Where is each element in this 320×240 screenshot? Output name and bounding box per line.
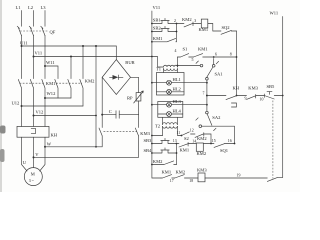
svg-text:V11: V11 (35, 51, 43, 56)
svg-text:HL3: HL3 (173, 99, 182, 104)
svg-text:V: V (35, 152, 39, 157)
svg-text:M: M (31, 171, 35, 176)
wire KM2 pole2 feed (70, 56, 72, 58)
svg-text:11: 11 (177, 131, 181, 135)
svg-text:KM1: KM1 (162, 169, 172, 174)
wire V11 bus (34, 56, 152, 58)
wire W tap to KM3 (45, 136, 102, 147)
node C left junction (101, 114, 103, 116)
coil KM3 (198, 173, 205, 182)
svg-text:15: 15 (212, 139, 216, 143)
svg-text:16: 16 (228, 139, 232, 143)
node U12 cross link (21, 105, 23, 107)
svg-text:T1: T1 (156, 67, 161, 72)
wire bridge right vertex to RP (131, 77, 139, 92)
breaker QF linkage (20, 30, 48, 32)
wire KM2 pole3 feed (82, 45, 84, 47)
wire rail to node 11 (152, 135, 163, 137)
svg-text:HL1: HL1 (173, 77, 181, 82)
svg-text:KM1: KM1 (46, 81, 56, 86)
svg-text:9: 9 (245, 97, 247, 101)
wire lamp box 2 to SA column (183, 104, 207, 106)
svg-text:3 ~: 3 ~ (29, 179, 34, 183)
lamp HL4 (158, 113, 183, 115)
svg-text:KM3: KM3 (197, 168, 207, 173)
wire coil KM2 to node 15 (203, 143, 214, 145)
lamp box HL3 HL4 (158, 102, 183, 118)
node W12 cross link (44, 97, 46, 99)
wire L2 drop (33, 11, 35, 27)
svg-text:3: 3 (194, 19, 196, 23)
row KH: wire from node 7 (206, 95, 208, 97)
svg-text:SB5: SB5 (267, 84, 276, 89)
wire phase W drop (44, 36, 46, 79)
wire bridge left vertex down (101, 77, 103, 127)
node motor V tap (33, 156, 35, 158)
thermal relay KH heater hook (31, 129, 35, 134)
wire motor lead W (40, 137, 45, 171)
svg-text:C: C (109, 109, 112, 114)
svg-text:19: 19 (237, 173, 241, 177)
contactor KM1 pole 2 (30, 79, 33, 126)
wire U11 bus (22, 45, 117, 47)
svg-text:L3: L3 (41, 5, 47, 10)
wire L1 drop (21, 11, 23, 27)
wire motor lead U (22, 137, 28, 171)
svg-text:2: 2 (174, 19, 176, 23)
contact KM2 NC (row S2) (191, 133, 212, 144)
node V12 cross link (33, 115, 35, 117)
svg-text:KM1: KM1 (153, 36, 163, 41)
wire RP to C row (138, 101, 140, 115)
svg-text:KM2: KM2 (182, 17, 192, 22)
scan artifact left edge (0, 0, 2, 192)
contact KM1 NC (row KM2 coil) (177, 142, 197, 147)
contactor KM1 pole 1 (18, 79, 21, 126)
lamp HL3 (158, 104, 183, 106)
contactor KM2 pole 1 (55, 79, 58, 98)
wire phase V drop (33, 36, 35, 79)
contactor KM3 pole 1 (99, 128, 102, 136)
bridge diode symbol (110, 75, 124, 80)
svg-text:SA2: SA2 (212, 115, 221, 120)
coil KM1 (201, 19, 208, 28)
switch S2 (182, 132, 190, 136)
wire rail to lamp box 2 (152, 104, 158, 106)
wire bridge top feed (115, 46, 117, 60)
lamp HL1 (157, 82, 185, 84)
svg-text:KM2: KM2 (176, 169, 186, 174)
svg-text:KM3: KM3 (248, 85, 258, 90)
wire SA2 to node 16 riser (202, 126, 235, 143)
svg-text:W11: W11 (270, 11, 279, 16)
svg-text:KH: KH (233, 85, 240, 90)
svg-text:12: 12 (190, 129, 194, 133)
lamp HL2 (157, 91, 185, 93)
wire SA1 pivot down (206, 80, 208, 111)
node W11 (44, 65, 46, 67)
svg-text:W12: W12 (47, 91, 57, 96)
capacitor C (102, 114, 138, 116)
wire aux vertical U11 to motor W line (95, 45, 97, 47)
svg-text:10: 10 (260, 98, 264, 102)
svg-text:KM2: KM2 (197, 136, 207, 141)
scan blob 1 (0, 126, 6, 134)
svg-text:SB4: SB4 (144, 148, 153, 153)
svg-text:5: 5 (192, 58, 194, 62)
svg-text:QF: QF (50, 30, 56, 35)
wire coil KM3 to end switch (205, 177, 267, 179)
selector SA2 (206, 111, 209, 114)
svg-text:KM1: KM1 (198, 46, 208, 51)
svg-text:4: 4 (175, 49, 177, 53)
breaker QF pole 1 (17, 26, 21, 35)
svg-text:KM3: KM3 (140, 131, 150, 136)
svg-text:SA1: SA1 (215, 71, 223, 76)
svg-text:SB1: SB1 (153, 18, 161, 23)
contactor linkage dashes (20, 82, 45, 84)
wire lamp box to SA1 column (184, 82, 207, 84)
svg-text:U12: U12 (12, 100, 21, 105)
wire phase U drop (21, 36, 23, 79)
svg-text:U: U (23, 160, 27, 165)
svg-text:S2: S2 (184, 136, 190, 141)
svg-text:7: 7 (203, 92, 205, 96)
svg-text:KM2: KM2 (85, 78, 95, 83)
svg-text:SB3: SB3 (144, 138, 153, 143)
node 11 (181, 135, 183, 137)
wire L3 drop (44, 11, 46, 27)
svg-text:RP: RP (127, 96, 133, 101)
svg-text:V12: V12 (36, 110, 45, 115)
svg-text:18: 18 (189, 179, 193, 183)
svg-text:U11: U11 (20, 40, 28, 45)
mechanical link dashed (272, 101, 274, 179)
svg-text:L2: L2 (28, 5, 34, 10)
svg-text:13: 13 (173, 139, 177, 143)
limit switch SQ2 (221, 30, 237, 34)
lamp box HL1 HL2 (157, 73, 185, 96)
breaker QF pole 3 (41, 26, 45, 35)
svg-text:W: W (47, 141, 52, 146)
bridge rectifier BUR diamond (102, 60, 130, 95)
svg-text:L1: L1 (16, 5, 21, 10)
breaker QF pole 2 (29, 26, 33, 35)
svg-text:T2: T2 (155, 124, 161, 129)
svg-text:S1: S1 (183, 47, 188, 52)
potentiometer RP (136, 93, 141, 101)
svg-text:KM2: KM2 (197, 151, 207, 156)
svg-text:6: 6 (215, 52, 217, 56)
svg-text:8: 8 (230, 52, 232, 56)
coil KM2 (196, 143, 203, 151)
node 2 vertical (176, 24, 178, 42)
limit switch SQ1 (214, 144, 235, 148)
node 15 (210, 143, 212, 145)
svg-text:KM1: KM1 (180, 147, 190, 152)
contactor KM2 pole 3 (80, 79, 83, 106)
wire W11 stub to KM2 (45, 66, 58, 79)
svg-text:W11: W11 (46, 60, 55, 65)
thermal relay KH box (17, 126, 49, 137)
svg-text:V11: V11 (153, 5, 161, 10)
svg-text:14: 14 (192, 140, 196, 144)
node 13 vertical (176, 144, 178, 165)
contactor KM1 pole 3 (42, 79, 45, 126)
end switch blade (267, 177, 282, 181)
wire coil KM1 to SQ2 (208, 24, 221, 32)
svg-text:KH: KH (51, 133, 58, 138)
wire to SA1 left terminal (178, 65, 201, 67)
svg-text:KM1: KM1 (199, 27, 209, 32)
wire V tap to KM3 (34, 136, 139, 158)
svg-text:17: 17 (170, 179, 174, 183)
svg-text:HL2: HL2 (173, 86, 182, 91)
wire SQ2 down to node 8 (236, 31, 238, 96)
contactor KM3 pole 2 (135, 115, 138, 136)
svg-text:BUR: BUR (125, 60, 135, 65)
svg-text:SQ2: SQ2 (222, 25, 231, 30)
wire rail to lamp box (152, 82, 157, 84)
contactor KM2 pole 2 (68, 79, 71, 98)
scan blob 2 (0, 149, 5, 162)
wire node4 drop (177, 57, 179, 66)
node motor W tap (44, 146, 46, 148)
contactor KM3 linkage (104, 131, 137, 133)
rail junction dots (151, 23, 153, 25)
motor M circle (24, 168, 42, 186)
svg-text:SQ1: SQ1 (220, 148, 228, 153)
wire V11 rail (152, 11, 161, 178)
node U11 (21, 45, 23, 47)
wire motor lead V (33, 137, 35, 168)
svg-text:KM2: KM2 (153, 159, 163, 164)
svg-text:HL4: HL4 (173, 109, 182, 114)
node V11 (33, 56, 35, 58)
svg-text:SB2: SB2 (153, 26, 162, 31)
selector SA1 (200, 64, 203, 67)
